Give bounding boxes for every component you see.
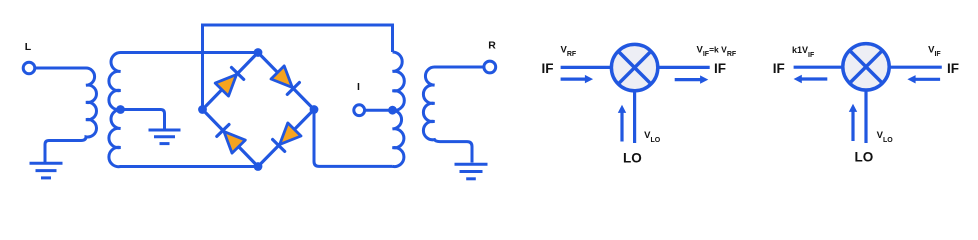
primary winding T1a with wires to L and ground	[35, 68, 96, 162]
node tap T2a	[388, 106, 397, 115]
svg-text:IF: IF	[947, 61, 959, 76]
arrow IF in	[907, 75, 940, 83]
arrow LO2 up	[849, 104, 857, 141]
ground G2 (center tap)	[149, 130, 181, 144]
wire mixer2 left (IF out)	[794, 66, 844, 69]
svg-text:VLO: VLO	[877, 130, 894, 144]
diode D4 (right-bottom side)	[273, 123, 301, 151]
svg-text:LO: LO	[623, 151, 642, 166]
node diamond top	[254, 48, 263, 57]
arrow IF out left	[794, 75, 828, 83]
secondary winding T2b and wire to R terminal and ground	[423, 67, 484, 163]
wire center tap to ground	[121, 110, 165, 130]
wire mixer2 LO stem	[864, 89, 867, 143]
wire I terminal to tap	[365, 109, 393, 112]
svg-text:k1VIF: k1VIF	[792, 45, 815, 59]
svg-text:IF: IF	[773, 61, 785, 76]
wire mixer1 LO stem	[633, 90, 636, 143]
terminal I	[354, 105, 365, 116]
ground G1 (under L coil)	[30, 163, 63, 178]
primary winding T2a lower half	[393, 110, 404, 166]
svg-text:VLO: VLO	[644, 130, 661, 144]
diode ring diamond wires	[203, 53, 315, 167]
svg-text:L: L	[25, 41, 32, 53]
terminal L	[23, 62, 35, 74]
diode D3 (bottom-left side)	[217, 125, 246, 154]
wire mixer2 right (IF in)	[889, 66, 942, 69]
svg-text:IF: IF	[714, 61, 726, 76]
svg-text:VIF: VIF	[928, 44, 941, 58]
ground G3 (under R coil)	[455, 164, 488, 179]
svg-text:LO: LO	[855, 150, 874, 165]
svg-text:VIF=k VRF: VIF=k VRF	[697, 44, 737, 58]
secondary winding T1b upper half	[109, 53, 121, 110]
secondary winding T1b lower half + wire to diamond bottom vertex	[109, 110, 258, 167]
node diamond left	[198, 105, 207, 114]
wire right vertex to right primary bottom	[314, 110, 393, 167]
terminal R	[484, 61, 496, 73]
svg-text:VRF: VRF	[561, 44, 577, 58]
wire top rail (left vertex to right transformer top)	[203, 25, 393, 110]
wire mixer1 left (RF in)	[561, 66, 612, 69]
arrow LO1 up	[618, 105, 626, 142]
wire mixer1 right (IF out)	[657, 66, 710, 69]
mixer symbol U1 (circle with X)	[611, 44, 657, 90]
wire secondary top to diamond top vertex	[121, 51, 259, 54]
node diamond bottom	[254, 162, 263, 171]
diode D2 (top-right side)	[271, 66, 299, 95]
svg-text:IF: IF	[542, 61, 554, 76]
mixer symbol U2 (circle with X)	[843, 44, 889, 90]
diode D1 (left-top side)	[215, 68, 244, 97]
svg-text:R: R	[488, 40, 496, 52]
node center tap T1b	[116, 105, 125, 114]
svg-text:I: I	[357, 81, 360, 93]
arrow RF in	[561, 75, 594, 83]
arrow IF out	[675, 75, 709, 83]
primary winding T2a upper half	[393, 52, 405, 110]
node diamond right	[310, 105, 319, 114]
